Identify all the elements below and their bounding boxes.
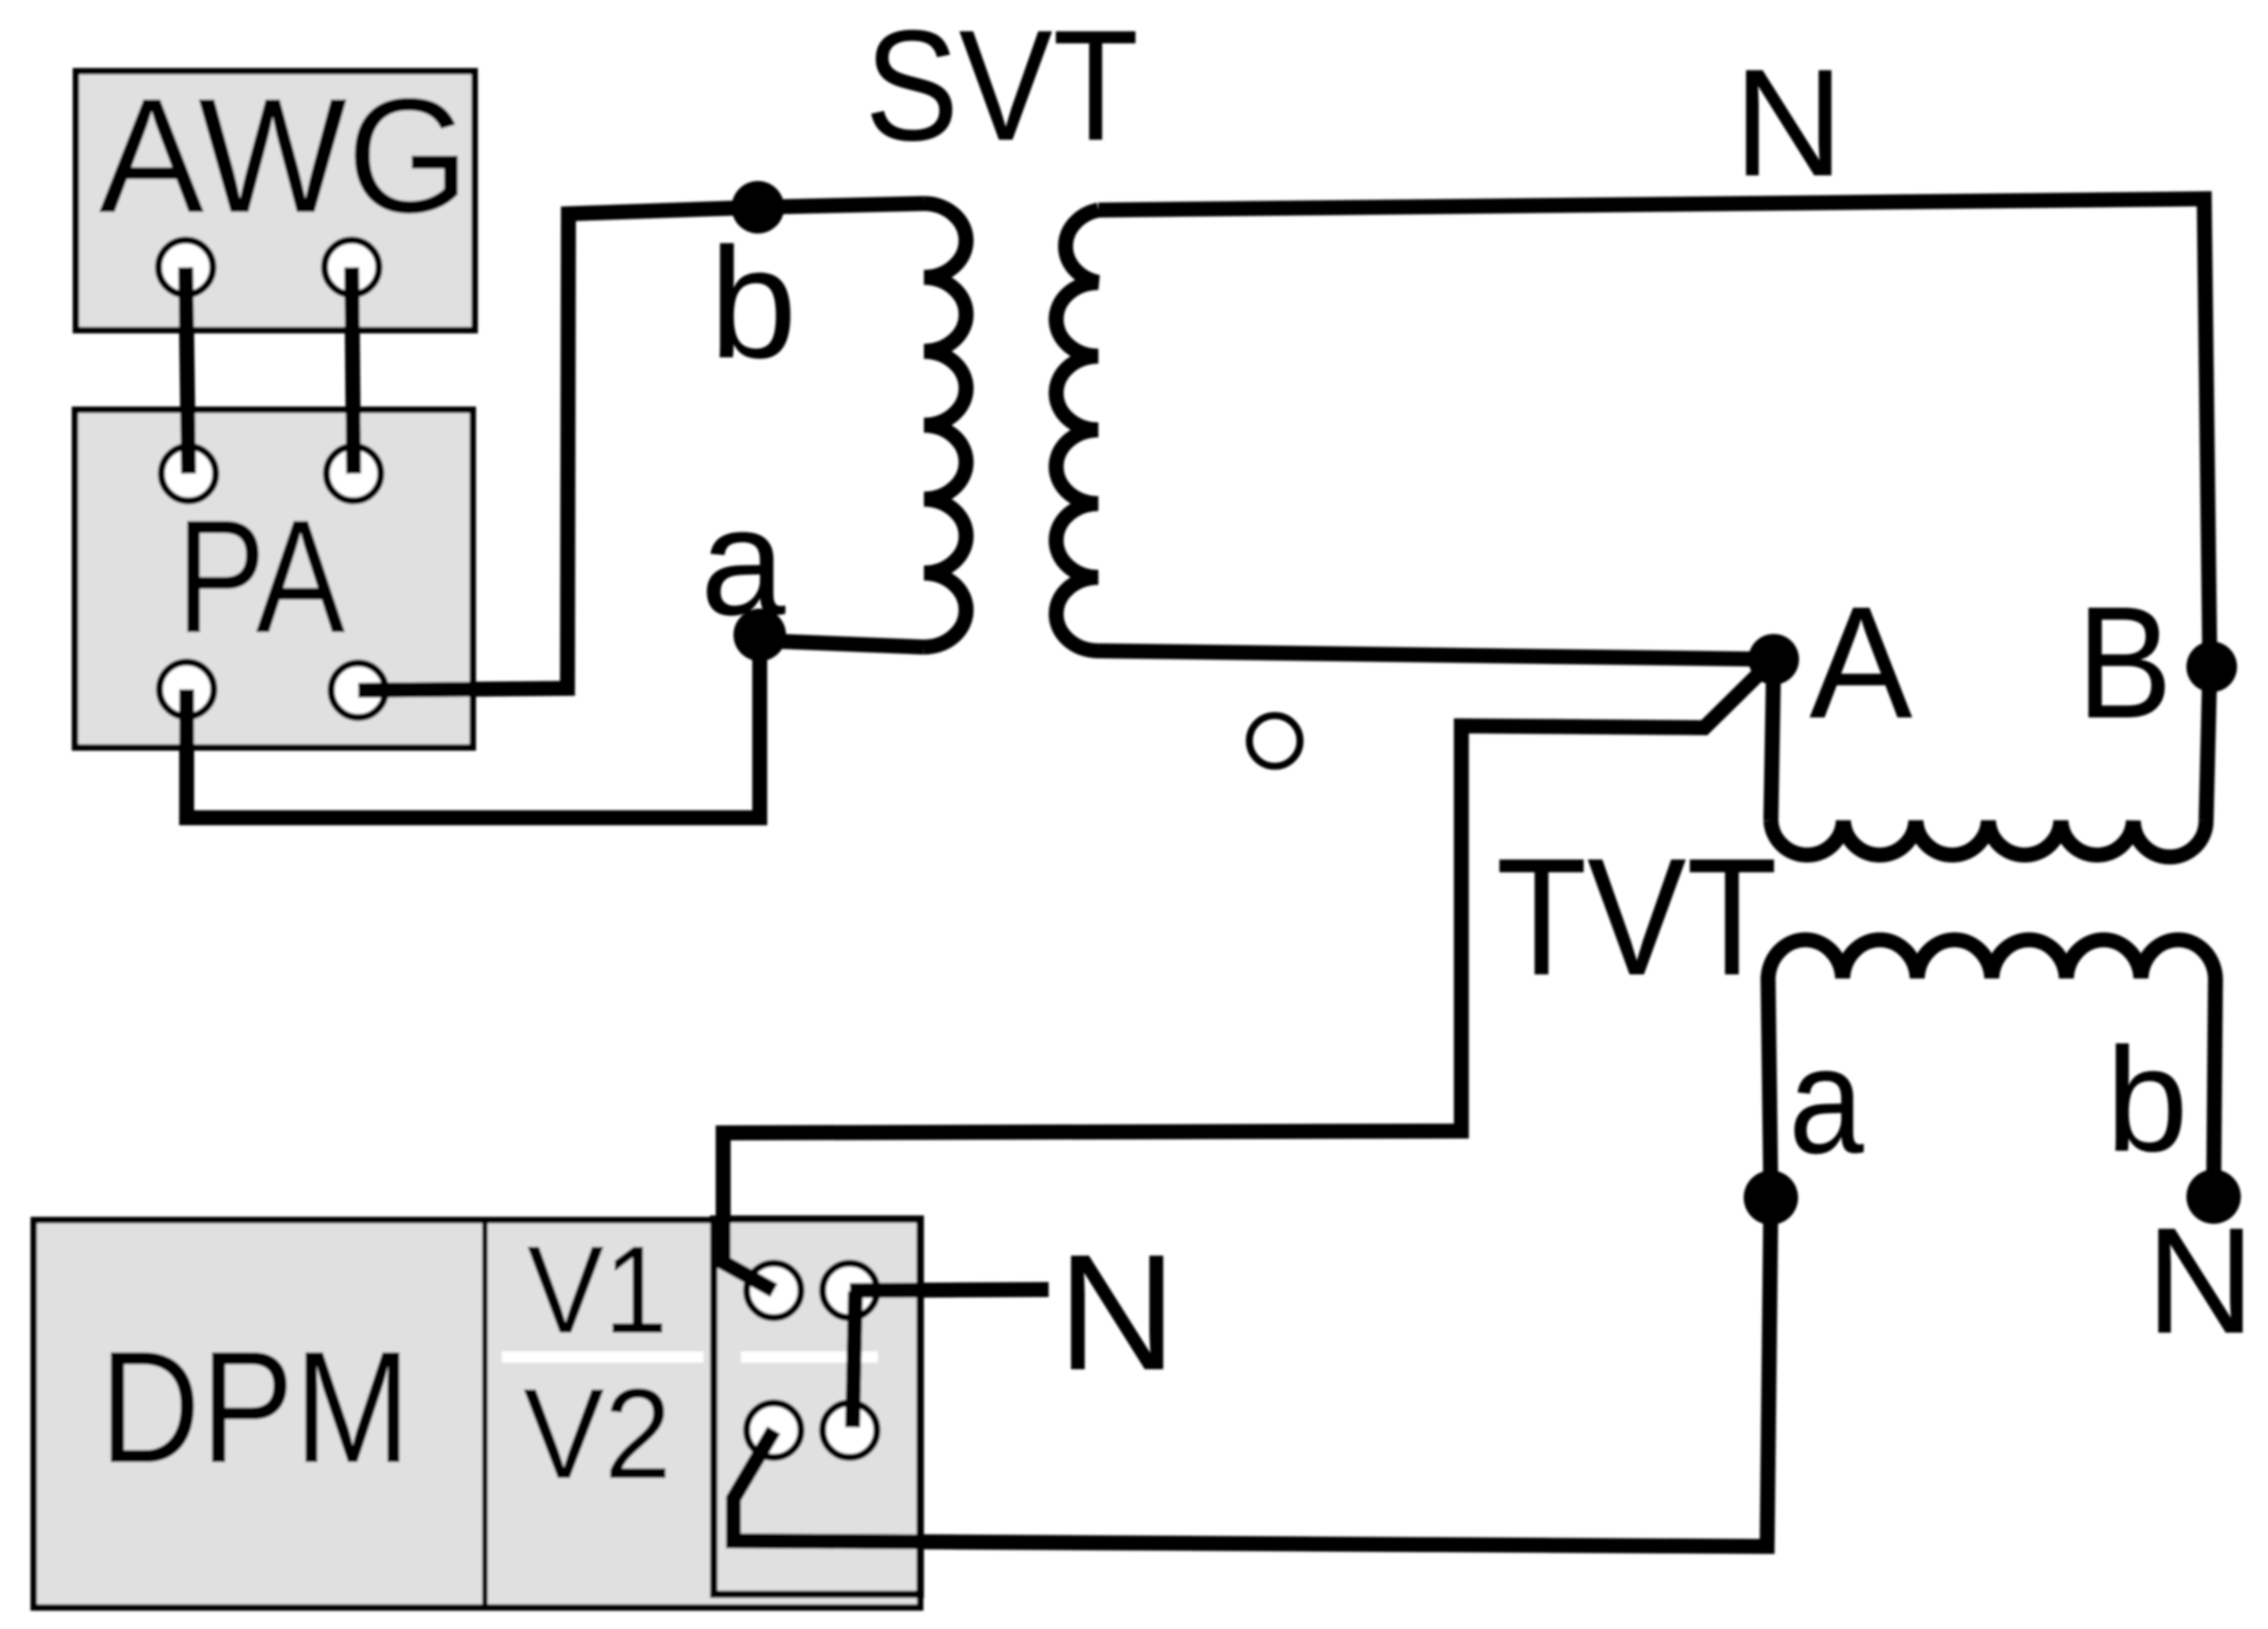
svg-text:PA: PA — [176, 487, 345, 667]
svg-text:V2: V2 — [523, 1363, 672, 1506]
svg-text:TVT: TVT — [1496, 823, 1777, 1010]
svg-text:N: N — [1057, 1221, 1176, 1405]
svg-text:SVT: SVT — [865, 0, 1139, 173]
svg-text:b: b — [2106, 1018, 2188, 1183]
svg-text:N: N — [2146, 1197, 2255, 1365]
svg-text:A: A — [1809, 574, 1913, 752]
svg-text:a: a — [701, 475, 786, 647]
svg-text:N: N — [1733, 37, 1844, 208]
svg-text:a: a — [1789, 1016, 1865, 1185]
svg-text:AWG: AWG — [99, 64, 470, 247]
svg-text:V1: V1 — [527, 1221, 668, 1360]
svg-text:B: B — [2077, 574, 2172, 752]
svg-text:b: b — [709, 215, 796, 391]
svg-text:DPM: DPM — [99, 1319, 411, 1497]
